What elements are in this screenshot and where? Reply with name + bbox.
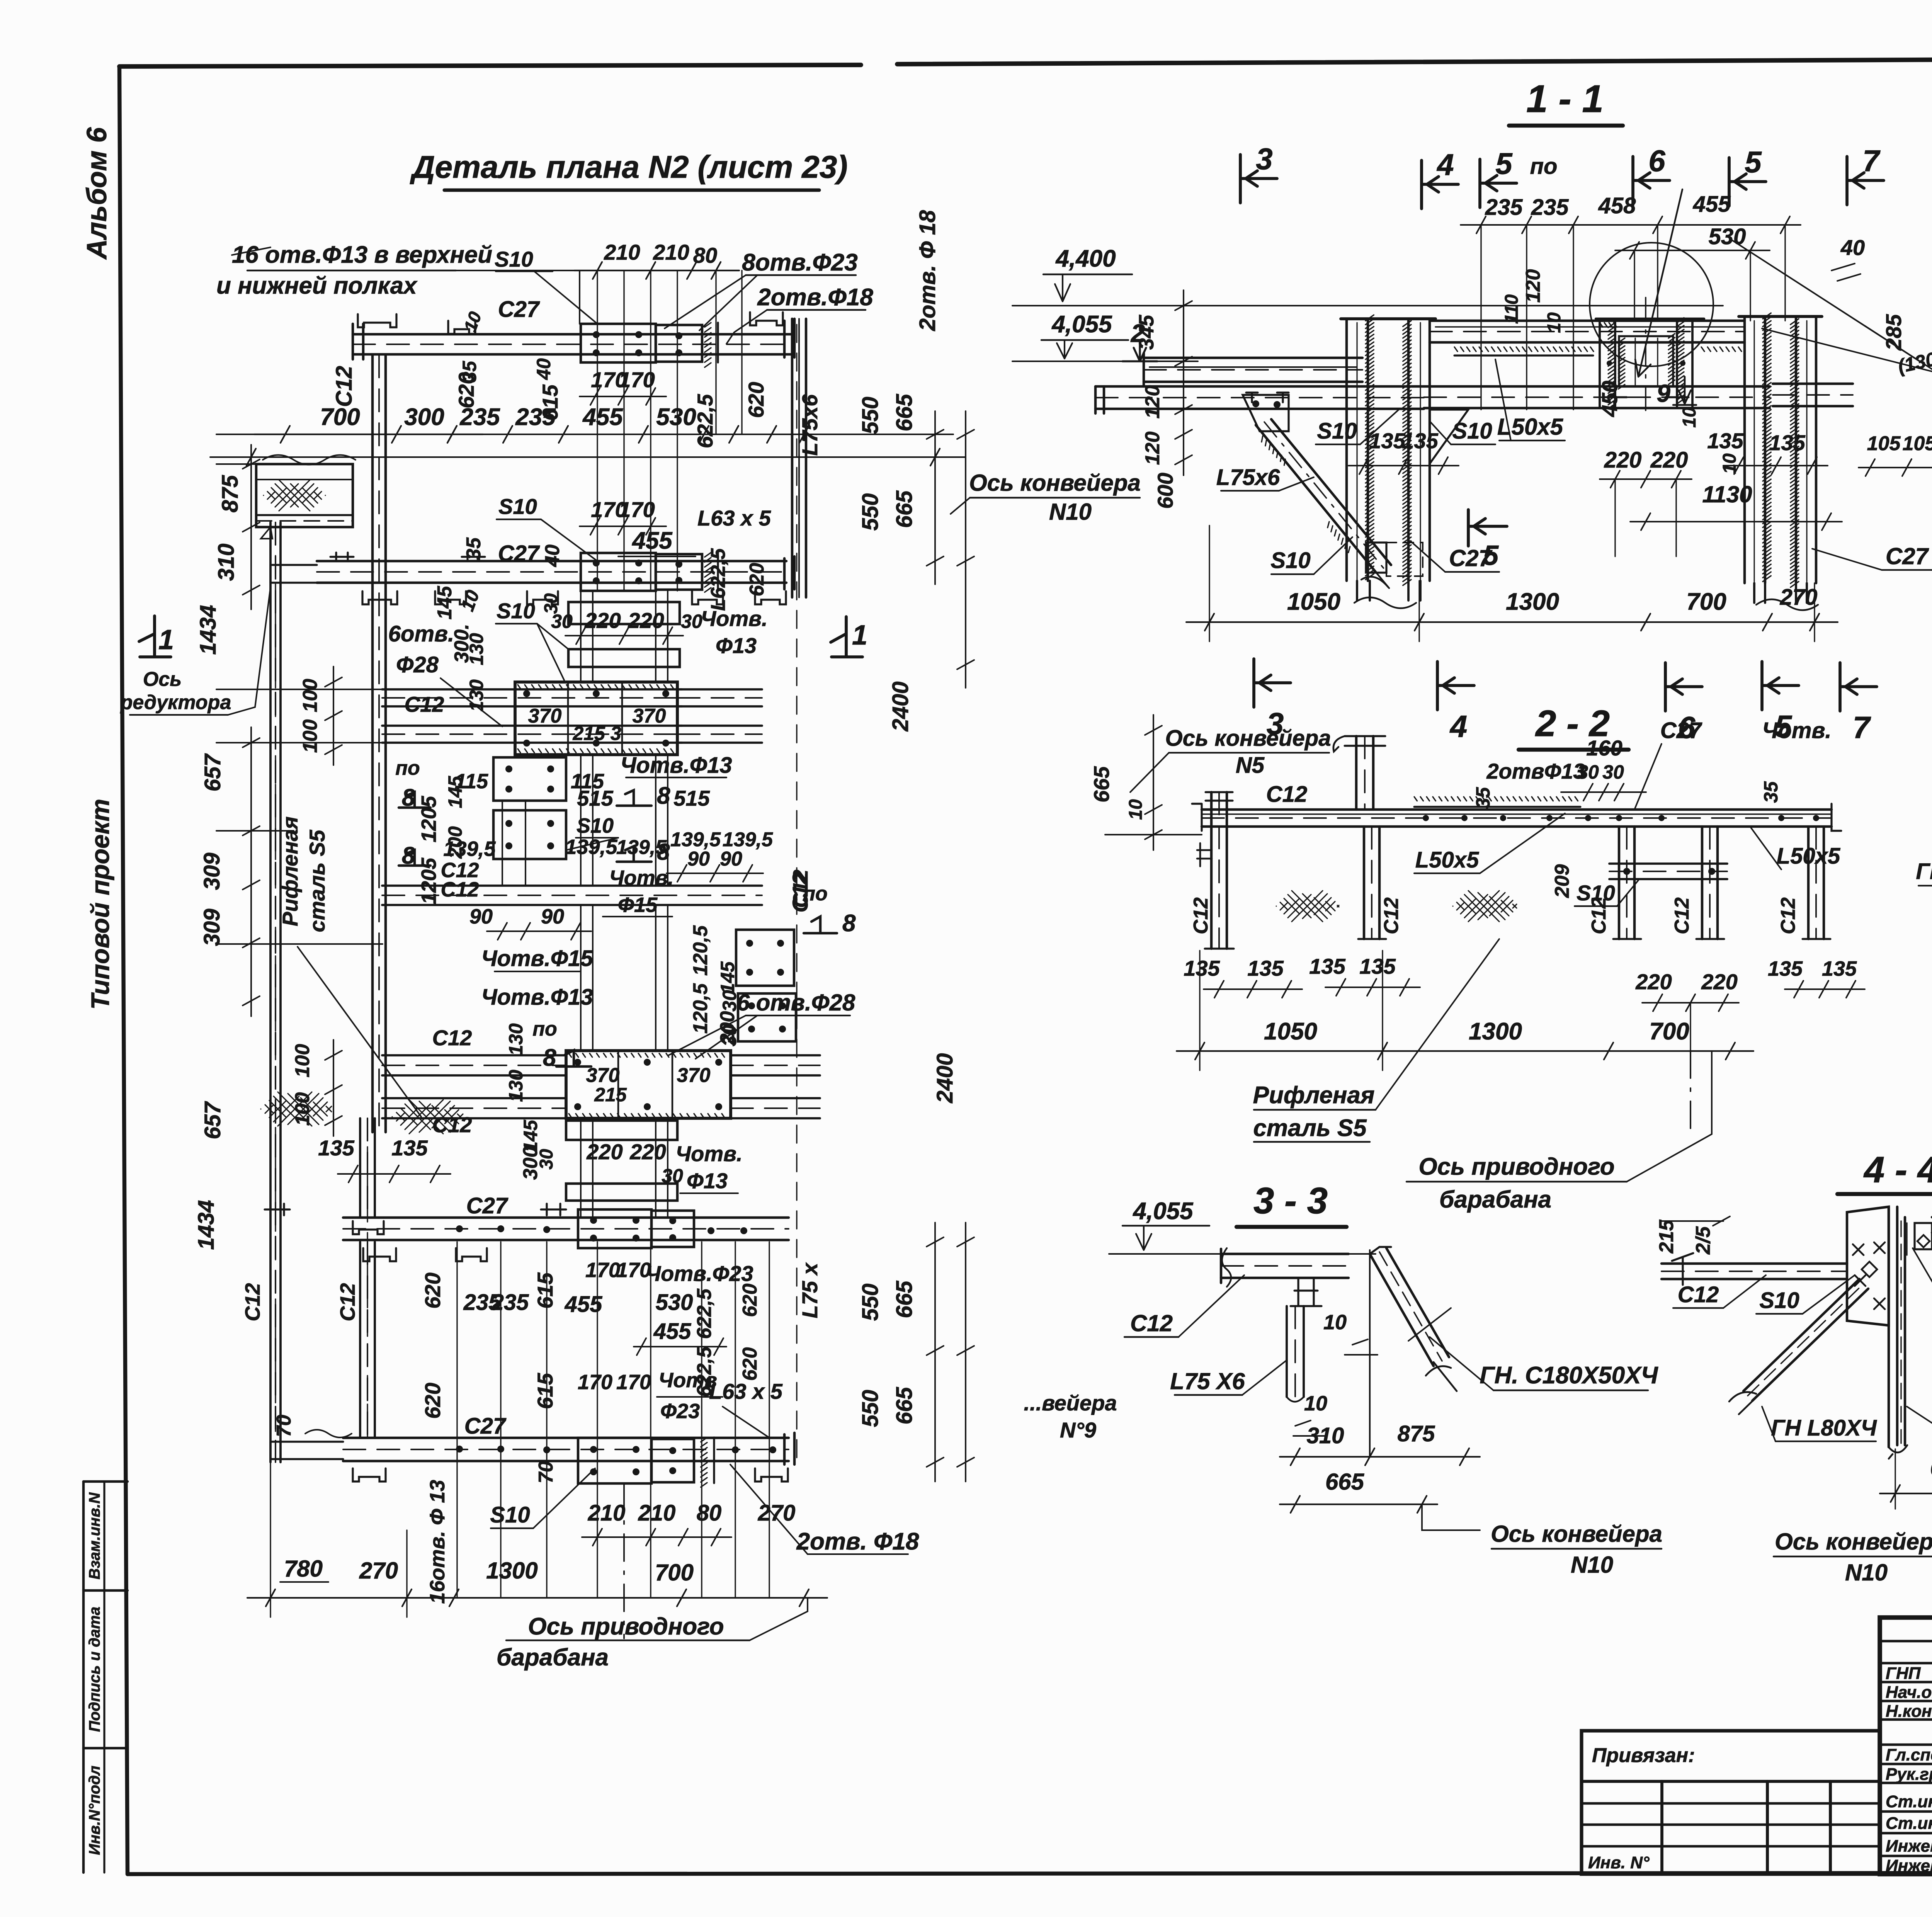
plan beam7 connector line: [713, 1437, 715, 1483]
sec4 post: [1889, 1207, 1905, 1447]
svg-text:35: 35: [1760, 781, 1782, 803]
plan small plate 115 bolt3: [547, 786, 554, 793]
sec2 topdim line: [1561, 791, 1646, 793]
plan small plate 139 bolt2: [547, 820, 554, 827]
svg-text:780: 780: [284, 1556, 323, 1582]
sec1 bottom chain: [1186, 614, 1838, 631]
plan 2отвФ18b leader: [730, 1465, 908, 1554]
svg-text:310: 310: [1307, 1423, 1344, 1448]
sec2 rail bolt4: [1585, 815, 1591, 821]
sec1 dim220 line: [1600, 471, 1692, 488]
svg-text:30: 30: [662, 1165, 683, 1187]
plan beam6 plate bolt0: [590, 1217, 597, 1224]
svg-text:1 - 1: 1 - 1: [1526, 77, 1604, 121]
svg-text:455: 455: [565, 1292, 603, 1317]
svg-text:120,5: 120,5: [689, 925, 712, 976]
sec1 top chord under: [1454, 354, 1593, 356]
sec1 col1 legs: [1357, 581, 1420, 600]
svg-text:L75х6: L75х6: [1216, 465, 1280, 490]
sec4 C27 leader: [1907, 1407, 1932, 1439]
sec3 diag dash: [1379, 1252, 1442, 1361]
plan small plate 115 bolt1: [505, 786, 512, 793]
plan mid beam C12 a-right centerline: [677, 697, 762, 699]
plan big cluster plate bolt5: [593, 740, 600, 747]
sec2 tie plate outline: [1609, 864, 1727, 879]
svg-text:215: 215: [1655, 1220, 1678, 1254]
svg-text:S10: S10: [497, 599, 535, 623]
plan mid datum d: [216, 943, 383, 945]
sec1 L50 underline: [1499, 440, 1565, 441]
secflag top 3 mark: [1240, 155, 1277, 203]
sec1 col2 right inner: [1806, 321, 1807, 582]
sec2 L50 leader: [1480, 813, 1565, 873]
svg-text:550: 550: [858, 397, 883, 434]
plan beam2 plate S10 bolt0: [593, 560, 600, 566]
sec3 beam break: [1222, 1248, 1231, 1287]
svg-text:5: 5: [1495, 146, 1513, 180]
plan projection line b4: [650, 1242, 651, 1598]
plan mid beam C12 a-left centerline: [382, 697, 682, 699]
sec2 rail bolt0: [1423, 815, 1429, 821]
svg-text:170: 170: [619, 367, 655, 392]
sec2 main rail C12 outline: [1202, 810, 1832, 827]
plan bottom chain v1: [270, 1462, 271, 1617]
sec2 left col centerline: [1218, 792, 1220, 949]
svg-text:по: по: [532, 1018, 557, 1040]
plan projection line b6: [735, 1242, 736, 1598]
sec1 S10a leader: [1360, 410, 1399, 444]
title block outline: [1880, 1618, 1932, 1874]
svg-text:40: 40: [1840, 235, 1865, 260]
sec2 S10 underline: [1575, 905, 1617, 907]
sig row line 2: [1880, 1681, 1932, 1684]
plan beam2 right flange: [784, 556, 794, 589]
sec2 col r2 tick: [1696, 938, 1724, 940]
plan leader 2отв: [726, 310, 767, 344]
sec1 C27b underline: [1882, 569, 1932, 571]
sec4 os konv underline: [1774, 1556, 1932, 1557]
svg-text:Чотв.Ф13: Чотв.Ф13: [620, 753, 732, 778]
plan rail v1: [592, 591, 594, 682]
sec1 col1 right strip: [1408, 319, 1430, 581]
svg-text:90: 90: [469, 905, 493, 928]
svg-text:Взам.инв.N: Взам.инв.N: [86, 1492, 103, 1579]
plan rail w3: [667, 801, 668, 886]
sec4 S8 serr: [1906, 1223, 1907, 1255]
sec2 col b outline: [1364, 827, 1379, 939]
svg-text:S10: S10: [577, 814, 614, 837]
plan left channel C12 outline: [372, 355, 386, 1132]
sec2 left col bottom tick: [1205, 947, 1234, 949]
plan beam6 foot a: [363, 1248, 396, 1261]
plan beam4 C12 right centerline: [731, 1065, 820, 1066]
plan beam2 plate S10: [581, 553, 656, 591]
svg-text:1300: 1300: [1506, 589, 1559, 615]
svg-text:620: 620: [420, 1383, 445, 1419]
sec2 left col small stub: [1197, 843, 1212, 866]
sec2 col r2 outline: [1702, 827, 1718, 939]
svg-text:300: 300: [404, 404, 444, 430]
svg-text:1: 1: [852, 620, 867, 651]
sec1 bottom band right outline: [1773, 384, 1853, 406]
svg-text:Привязан:: Привязан:: [1592, 1744, 1695, 1767]
plan projection line b2: [546, 1242, 547, 1598]
plan small plate 139 bolt0: [505, 820, 512, 827]
svg-text:Чотв.Ф13: Чотв.Ф13: [481, 985, 593, 1010]
sec2 left col outline: [1211, 792, 1227, 949]
svg-text:235: 235: [491, 1290, 529, 1315]
sec1 gear top serr: [1600, 323, 1617, 327]
plan rail x2: [655, 1118, 656, 1218]
sec1 gear box inner r: [1657, 338, 1658, 386]
svg-text:2отвФ13: 2отвФ13: [1486, 759, 1585, 783]
strip left line: [82, 1482, 85, 1873]
svg-text:100: 100: [291, 1092, 314, 1126]
svg-text:170: 170: [578, 1371, 612, 1394]
sec2 center axis: [1690, 1051, 1691, 1136]
sig row line 10: [1880, 1855, 1932, 1857]
sec2 col b centerline: [1371, 827, 1372, 939]
sec2 left datum: [1105, 834, 1202, 835]
svg-text:1434: 1434: [196, 605, 221, 655]
svg-text:Чотв.: Чотв.: [1762, 718, 1831, 743]
svg-text:1050: 1050: [1264, 1018, 1317, 1045]
sec2 col r3 tick: [1803, 938, 1830, 940]
title block group: [1582, 1618, 1932, 1874]
plan 6отвФ28 underline: [746, 1015, 850, 1016]
plan beam 2 C27 centerline: [317, 571, 786, 573]
sec2 rail bolt5: [1616, 815, 1622, 821]
svg-text:70: 70: [535, 1461, 557, 1483]
sec2 upstand curl: [1333, 736, 1345, 752]
plan rail y3: [667, 755, 668, 886]
privyazan grid h2: [1582, 1802, 1880, 1805]
svg-text:по: по: [1530, 154, 1558, 179]
sec4 left beam outline: [1662, 1264, 1847, 1279]
privyazan grid h3: [1582, 1823, 1880, 1826]
svg-text:5: 5: [1483, 540, 1499, 571]
sec2 upstand outline: [1356, 736, 1373, 810]
plan beam2 plate b: [656, 554, 702, 590]
sec3 ГН leader: [1408, 1308, 1493, 1390]
secflag bot 3 mark: [1254, 659, 1291, 707]
plan long datum 1183: [210, 456, 966, 458]
plan rail v2: [655, 591, 656, 682]
svg-text:L622,5: L622,5: [707, 548, 730, 611]
plan rail z2: [655, 905, 656, 1051]
svg-text:530: 530: [656, 1290, 693, 1315]
plan label 8отв underline: [746, 274, 856, 276]
sec1 S10a underline: [1316, 444, 1360, 445]
svg-text:7: 7: [1853, 710, 1871, 745]
sec2 tie bolt a: [1623, 868, 1630, 875]
sec1 col1 break: [1354, 597, 1416, 608]
svg-text:4,055: 4,055: [1132, 1198, 1194, 1225]
plan beam5 C12 right centerline: [731, 1107, 820, 1109]
plan projection line m3: [677, 434, 678, 591]
sec1 gear box inner l: [1634, 338, 1636, 386]
sec4 C12a underline: [1673, 1307, 1723, 1309]
svg-text:70: 70: [273, 1415, 295, 1437]
plan top plate S10 bolt0: [593, 331, 600, 338]
secflag top 5a mark: [1480, 159, 1517, 208]
plan left bracket dash: [256, 520, 353, 522]
plan beam 2 C27 outline: [317, 561, 786, 583]
svg-text:Ф28: Ф28: [396, 652, 439, 677]
svg-text:209: 209: [1551, 864, 1573, 898]
plan small plate 139 bolt1: [505, 842, 512, 849]
sec3 dim10a ticks: [1345, 1339, 1378, 1355]
svg-text:80: 80: [697, 1500, 722, 1526]
sec1 left beam lower outline: [1095, 386, 1424, 409]
plan leader 8отв: [665, 275, 757, 330]
svg-text:309: 309: [199, 853, 224, 890]
sec1 brace serr b: [1328, 522, 1350, 553]
svg-text:210: 210: [604, 240, 640, 264]
sec2 rail bolt2: [1500, 815, 1506, 821]
svg-text:S10: S10: [1452, 418, 1492, 444]
plan beam5 C12 left outline: [382, 1098, 566, 1118]
svg-text:160: 160: [1586, 736, 1622, 760]
sec2 rail bolt8: [1813, 815, 1819, 821]
plan flag8 b: [399, 850, 430, 866]
sec2 L50b leader: [1750, 827, 1781, 869]
sec1 col2 break: [1756, 599, 1818, 610]
plan flag8 a: [399, 792, 430, 808]
plan stub left foot: [353, 1221, 384, 1234]
plan beam2 left ext: [270, 565, 317, 583]
plan dim 455b line: [618, 556, 696, 557]
plan dim780 underline: [280, 1581, 328, 1583]
svg-text:700: 700: [320, 404, 360, 430]
svg-text:210: 210: [653, 240, 689, 264]
plan flag8 d: [617, 846, 651, 862]
sec1 left beam upper inner: [1150, 366, 1356, 368]
svg-text:L75х6: L75х6: [798, 394, 822, 456]
plan rail v0: [580, 591, 582, 682]
svg-text:10: 10: [1304, 1392, 1327, 1415]
svg-text:220: 220: [629, 1140, 666, 1164]
sig rows group: [1880, 1641, 1932, 1856]
sec4 S10 underline: [1756, 1313, 1803, 1315]
plan plate r1 bolt1: [746, 969, 753, 976]
plan top plate S10: [581, 324, 656, 362]
plan beam2 foot e: [755, 591, 786, 604]
plan right angle inner: [798, 325, 800, 595]
plan top beam left foot2: [448, 321, 475, 334]
sec4 dim665 v: [1895, 1449, 1896, 1509]
svg-text:Ось приводного: Ось приводного: [1418, 1153, 1614, 1180]
plan top plate S10 b: [656, 325, 702, 362]
svg-text:С27: С27: [1886, 543, 1929, 569]
svg-text:665: 665: [1089, 766, 1114, 802]
svg-text:600: 600: [1153, 473, 1177, 509]
svg-text:135: 135: [1369, 429, 1405, 453]
plan left dimline 2: [243, 727, 260, 1016]
sec1 chain v2: [1418, 581, 1420, 641]
svg-text:ГН. С180Х50ХЧ: ГН. С180Х50ХЧ: [1480, 1362, 1658, 1389]
svg-text:220: 220: [1635, 970, 1672, 994]
frame top border left segment: [119, 65, 861, 66]
sec2 dim135 b: [1325, 979, 1420, 996]
plan beam2 plate S10 bolt2: [635, 560, 642, 566]
plan beam6 plate: [578, 1209, 651, 1248]
sec1 col2 serr left: [1763, 313, 1771, 582]
plan plate r2 bolt0: [748, 1002, 755, 1009]
privyazan box: [1582, 1731, 1880, 1874]
plan beam6 bolt2: [543, 1226, 550, 1233]
plan big cluster serr bot: [518, 749, 673, 753]
plan beam6 foot b: [456, 1248, 487, 1261]
secflag top 4 mark: [1422, 160, 1458, 209]
svg-text:30: 30: [551, 611, 573, 632]
sig row line 8: [1880, 1810, 1932, 1813]
svg-text:С27: С27: [464, 1414, 507, 1439]
plan left dim 100: [325, 667, 342, 765]
svg-text:N10: N10: [1049, 499, 1092, 525]
plan big cluster plate bolt2: [662, 690, 669, 697]
sec2 L50 serr: [1414, 797, 1578, 801]
sig row line 5: [1880, 1744, 1932, 1746]
sec1 left beam lower centerline: [1095, 397, 1424, 398]
privyazan grid h4: [1582, 1845, 1880, 1848]
plan 4отвФ15 underline: [495, 971, 580, 972]
svg-text:Ось конвейера: Ось конвейера: [1165, 726, 1331, 751]
svg-text:700: 700: [1649, 1018, 1689, 1045]
svg-text:Инв.N°подл: Инв.N°подл: [86, 1766, 103, 1855]
sec1 left beam upper centerline: [1144, 369, 1362, 371]
svg-text:Ось конвейера: Ось конвейера: [1775, 1529, 1932, 1555]
svg-text:620: 620: [739, 1347, 761, 1381]
sec1 brace bolt2: [1274, 401, 1281, 408]
plan beam2 stub2: [462, 553, 485, 561]
plan right dimline d: [957, 1223, 974, 1482]
plan dash v right: [796, 325, 797, 1462]
sec3 level line: [1109, 1253, 1376, 1255]
secflag top 7 mark: [1847, 156, 1884, 205]
plan top plate S10 b bolt1: [675, 349, 682, 356]
plan left datum 1201: [216, 463, 256, 465]
plan note strike: [232, 247, 270, 255]
plan left channel C12 centerline: [378, 355, 380, 1132]
svg-text:139,5: 139,5: [565, 835, 617, 859]
sec1 gear box: [1619, 336, 1673, 386]
plan top connector serration: [705, 323, 711, 367]
plan mid beam C12 a-right outline: [677, 689, 762, 706]
svg-text:1434: 1434: [194, 1200, 219, 1250]
plan projection line t5: [741, 270, 742, 434]
sec1 brace serr a: [1262, 436, 1285, 465]
svg-text:4,055: 4,055: [1051, 311, 1112, 338]
plan mid beam C12 b-left outline: [382, 726, 682, 743]
svg-text:120: 120: [1141, 385, 1164, 419]
plan beam7 left end: [269, 1442, 271, 1459]
sec1 S10b underline: [1451, 444, 1495, 445]
plan dim 700-300: [254, 426, 483, 443]
svg-text:Ось конвейера: Ось конвейера: [969, 470, 1141, 496]
sec2 main rail inner: [1202, 813, 1832, 815]
sec1 col1 top plate: [1341, 317, 1435, 320]
sec2 col r3 centerline: [1815, 827, 1817, 939]
plan bottom chain v2: [406, 1530, 407, 1617]
sec2 dim220 v: [1690, 1003, 1691, 1051]
svg-text:10: 10: [457, 587, 483, 614]
plan 6отвФ28 leader: [668, 1015, 757, 1059]
svg-text:100: 100: [291, 1044, 314, 1078]
sec3 diag top hook: [1370, 1247, 1391, 1254]
svg-text:700: 700: [1686, 589, 1726, 615]
sec1 top chord outline: [1430, 321, 1745, 342]
svg-text:345: 345: [1135, 315, 1158, 350]
svg-text:4 - 4: 4 - 4: [1863, 1149, 1932, 1191]
sec2 rail bolt3: [1546, 815, 1553, 821]
sec2 col r2 centerline: [1709, 827, 1711, 939]
svg-text:L75 х: L75 х: [798, 1262, 822, 1318]
svg-text:ГНП: ГНП: [1886, 1664, 1921, 1683]
plan rail y1: [592, 755, 594, 886]
svg-text:665: 665: [1325, 1469, 1365, 1495]
plan dim 90 90: [667, 865, 763, 882]
plan beam2 foot a: [362, 591, 397, 604]
sec2 rail bolt6: [1658, 815, 1665, 821]
sec3 L75 underline: [1175, 1394, 1242, 1396]
sec1 flag5 mid: [1468, 510, 1507, 546]
svg-text:Рук.гр.: Рук.гр.: [1886, 1765, 1932, 1784]
svg-text:145: 145: [444, 776, 466, 808]
svg-text:100: 100: [299, 679, 321, 713]
sec2 rail left hook: [1192, 804, 1202, 831]
secflag bot 6 mark: [1665, 663, 1702, 711]
svg-text:Альбом 6: Альбом 6: [82, 127, 112, 260]
plan dim455d line: [634, 1346, 726, 1347]
svg-text:N10: N10: [1845, 1560, 1888, 1585]
frame bottom border: [128, 1873, 1932, 1874]
sec1 gear bolt a: [1607, 361, 1612, 366]
sec2 S10 leader: [1617, 880, 1638, 906]
sec1 os konv underline: [970, 497, 1140, 498]
svg-text:30: 30: [719, 990, 740, 1012]
plan big cluster plate bolt4: [593, 690, 600, 697]
svg-text:130: 130: [505, 1023, 527, 1056]
sec1 L75 underline: [1221, 490, 1279, 492]
svg-text:10: 10: [1323, 1311, 1347, 1334]
sec1 C27a leader: [1410, 541, 1445, 572]
plan right angle L75x6 outline: [792, 319, 806, 597]
sec4 ГН underline: [1776, 1441, 1876, 1442]
plan beam2 stub1: [330, 553, 354, 561]
plan rail v3: [667, 591, 668, 682]
svg-text:310: 310: [214, 544, 239, 581]
sec3 beam centerline: [1221, 1265, 1349, 1267]
plan rail x1: [592, 1118, 594, 1218]
svg-text:С12: С12: [1380, 897, 1403, 934]
svg-text:455: 455: [582, 404, 623, 430]
svg-text:220: 220: [1604, 447, 1642, 473]
plan dim455d ticks: [637, 1338, 723, 1355]
svg-text:С12: С12: [1588, 897, 1610, 934]
plan big cluster 2 bolt2: [715, 1059, 722, 1066]
plan top beam right flange: [784, 319, 794, 357]
svg-text:С12: С12: [1777, 897, 1799, 934]
svg-text:35: 35: [463, 537, 485, 560]
sec4 S8 leader: [1913, 1248, 1932, 1294]
plan plate r2 bolt3: [779, 1026, 786, 1032]
plan projection line b1: [500, 1242, 501, 1598]
sec1 L75 leader: [1279, 477, 1314, 491]
plan mid datum a: [216, 689, 382, 690]
svg-text:С12: С12: [440, 859, 479, 882]
sec1 detail circle: [1590, 243, 1713, 366]
